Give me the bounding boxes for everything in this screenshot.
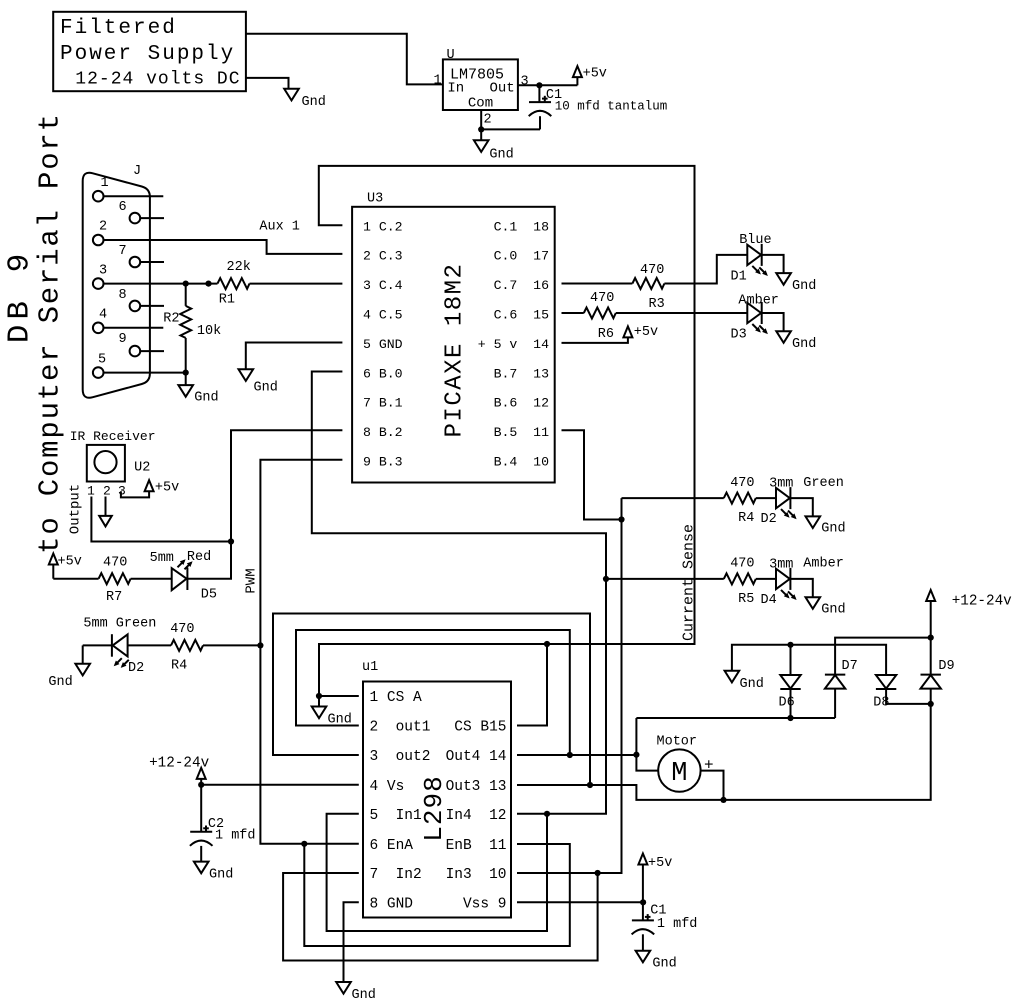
svg-text:+5v: +5v	[58, 555, 82, 570]
diode D9	[930, 638, 932, 675]
svg-text:+12-24v: +12-24v	[952, 594, 1012, 610]
svg-text:D3: D3	[731, 328, 747, 343]
ground (CS pins)	[318, 696, 320, 707]
wire: DB9 pin 2 to PICAXE C.3	[104, 240, 343, 254]
svg-text:D9: D9	[938, 659, 954, 674]
node: EnA / EnB loop junction	[301, 841, 307, 847]
svg-text:2 C.3: 2 C.3	[363, 249, 403, 264]
wire: +12-24v to D7	[835, 638, 931, 675]
wire: C.7 pin16 to R3	[562, 283, 633, 285]
ground (D6/D8)	[725, 671, 740, 683]
node: +12-24v / D9 junction	[928, 635, 934, 641]
wire: B.5 pin 11 route	[562, 430, 622, 519]
wire: +5v pin 14	[562, 337, 628, 343]
svg-text:+: +	[704, 757, 714, 775]
wire: IR pin3 to +5v	[121, 491, 149, 497]
svg-text:Green: Green	[803, 476, 844, 491]
svg-text:Gnd: Gnd	[792, 279, 816, 294]
pin 2 circle	[93, 235, 104, 246]
svg-text:470: 470	[103, 556, 127, 571]
svg-text:R5: R5	[738, 592, 754, 607]
+5v symbol (regulator)	[576, 77, 578, 85]
svg-text:U2: U2	[134, 461, 150, 476]
wire: L298 GND pin 8 to ground	[344, 902, 359, 982]
svg-text:7 In2: 7 In2	[370, 867, 422, 883]
LED D2 5mm green (points left)	[83, 644, 113, 646]
diode D8	[876, 675, 896, 689]
svg-text:Gnd: Gnd	[48, 675, 72, 690]
diode D6	[790, 645, 792, 675]
svg-text:u1: u1	[362, 660, 378, 675]
wire: power supply to regulator input	[246, 34, 443, 85]
node: motor minus / Out3 junction	[720, 797, 726, 803]
ground (PICAXE pin 5)	[239, 369, 254, 381]
svg-text:Blue: Blue	[739, 233, 771, 248]
wire: IR pin2 ground arrow	[105, 497, 107, 516]
svg-text:+12-24v: +12-24v	[149, 756, 209, 772]
svg-text:D2: D2	[761, 512, 777, 527]
wire: D1 cathode to ground	[762, 255, 784, 273]
ground (C1)	[636, 951, 651, 963]
LED D2 3mm green	[776, 487, 790, 509]
svg-text:Gnd: Gnd	[792, 337, 816, 352]
wire: DB9 pin 7 stub	[140, 261, 164, 263]
+5v symbol (IR)	[145, 480, 154, 491]
svg-text:9 B.3: 9 B.3	[363, 455, 403, 470]
capacitor C1 10 mfd tantalum	[538, 85, 540, 102]
IR receiver U2 body	[87, 445, 125, 482]
diode D7	[825, 675, 845, 689]
node: gnd rail / D6 junction	[787, 642, 793, 648]
wire: amber branch to R5	[606, 578, 724, 580]
svg-text:1 C.2: 1 C.2	[363, 219, 403, 234]
svg-text:R2: R2	[163, 312, 179, 327]
wire: R1 to PICAXE C.4	[250, 283, 343, 285]
svg-text:470: 470	[730, 476, 754, 491]
svg-text:Out: Out	[490, 81, 515, 97]
capacitor C2 1 mfd	[200, 785, 202, 832]
wire: regulator common to cap	[481, 110, 540, 140]
node: pin3 wire second junction	[205, 281, 211, 287]
svg-text:Amber: Amber	[738, 294, 779, 309]
wire: +5v to R7	[53, 578, 98, 580]
node: IR output / B.2 / D5 junction	[228, 538, 234, 544]
svg-text:Gnd: Gnd	[821, 603, 845, 618]
PICAXE right pin labels	[478, 219, 549, 469]
wire: In2 to In3 loop	[283, 873, 597, 961]
svg-text:PICAXE 18M2: PICAXE 18M2	[442, 263, 469, 438]
capacitor C1 1 mfd	[632, 914, 655, 934]
connector J outline	[83, 173, 150, 398]
svg-text:3: 3	[521, 74, 529, 89]
svg-text:J: J	[133, 164, 141, 179]
wire: R4 to D2	[756, 497, 776, 499]
svg-text:2: 2	[484, 113, 492, 128]
wire: DB9 pin 5 to ground	[104, 373, 186, 386]
svg-text:Gnd: Gnd	[821, 522, 845, 537]
svg-text:D4: D4	[761, 593, 777, 608]
node: D8/D9 bottom junction	[928, 701, 934, 707]
svg-text:5mm Green: 5mm Green	[83, 617, 156, 632]
svg-text:+ 5 v 14: + 5 v 14	[478, 337, 549, 352]
svg-text:Motor: Motor	[657, 735, 698, 750]
svg-text:Com: Com	[468, 96, 493, 112]
svg-text:B.6 12: B.6 12	[494, 396, 549, 411]
svg-text:R4: R4	[738, 511, 754, 526]
svg-text:Current Sense: Current Sense	[680, 524, 697, 641]
svg-text:4 C.5: 4 C.5	[363, 308, 403, 323]
wire: regulator output	[518, 84, 578, 86]
+5v symbol (Vss)	[642, 865, 644, 921]
resistor R4 470 (5mm green)	[171, 640, 203, 651]
wire: B.3 PWM line to EnA	[260, 460, 358, 844]
wire: D3 cathode to ground	[762, 313, 784, 331]
svg-text:6: 6	[119, 200, 127, 215]
svg-text:Amber: Amber	[803, 557, 844, 572]
ground (3mm amber D4)	[806, 597, 821, 609]
svg-text:8 GND: 8 GND	[370, 896, 414, 912]
resistor R3 470	[632, 278, 664, 289]
+5v symbol (R7)	[52, 565, 54, 579]
ground (C2)	[194, 862, 209, 874]
svg-text:470: 470	[590, 291, 614, 306]
node: pin3/R2 junction	[183, 281, 189, 287]
svg-text:Gnd: Gnd	[489, 148, 513, 163]
svg-text:R6: R6	[598, 327, 614, 342]
svg-text:In4 12: In4 12	[446, 808, 507, 824]
svg-text:C.6 15: C.6 15	[494, 308, 549, 323]
wire: DB9 pin 1 stub	[104, 195, 164, 197]
svg-text:C.7 16: C.7 16	[494, 278, 549, 293]
wire: CS B riser	[517, 644, 547, 726]
resistor R2 10k	[185, 284, 187, 306]
+12-24v symbol (Vs)	[200, 779, 202, 785]
svg-text:2: 2	[103, 484, 111, 499]
svg-text:+5v: +5v	[583, 67, 607, 82]
IC u1 L298 body	[363, 682, 511, 918]
wire: DB9 pin 6 stub	[140, 217, 164, 219]
wire: Vss to +5v	[517, 901, 643, 903]
svg-text:U3: U3	[367, 192, 383, 207]
node: CS A / ground junction	[316, 693, 322, 699]
node: regulator common junction	[478, 126, 484, 132]
wire: DB9 pin 4 stub	[104, 327, 164, 329]
svg-text:R7: R7	[106, 590, 122, 605]
wire: DB9 pin 8 stub	[140, 305, 164, 307]
svg-text:Gnd: Gnd	[254, 381, 278, 396]
wire: motor left lead	[636, 718, 658, 771]
svg-text:Power Supply: Power Supply	[60, 43, 235, 66]
wire: R7 to D5	[131, 578, 172, 580]
ground (L298 pin 8)	[336, 982, 351, 994]
svg-text:4: 4	[99, 308, 107, 323]
svg-text:R4: R4	[171, 659, 187, 674]
ground (D1)	[776, 273, 791, 285]
svg-text:4 Vs: 4 Vs	[370, 779, 405, 795]
pin 9 circle	[130, 346, 141, 357]
node: CS loop / CS B junction	[544, 641, 550, 647]
svg-text:Out3 13: Out3 13	[446, 779, 507, 795]
ground (D3)	[776, 331, 791, 343]
svg-text:L298: L298	[419, 775, 449, 841]
wire: B.2 to IR output node	[231, 430, 342, 541]
PICAXE left pin labels	[363, 219, 403, 469]
node: out2 loop / Out3 junction	[587, 782, 593, 788]
resistor R1 22k	[218, 278, 250, 289]
resistor R5 470 (3mm amber)	[724, 573, 756, 584]
node: D6 bottom junction	[787, 715, 793, 721]
wire: flyback top rail	[636, 717, 835, 719]
svg-text:3: 3	[99, 264, 107, 279]
svg-text:2: 2	[99, 220, 107, 235]
pin 3 circle	[93, 278, 104, 289]
svg-text:D2: D2	[128, 661, 144, 676]
ground (DB9 pin5/R2)	[178, 385, 193, 397]
svg-text:3: 3	[118, 484, 126, 499]
svg-text:2 out1: 2 out1	[370, 720, 431, 736]
svg-text:9: 9	[119, 332, 127, 347]
svg-text:Gnd: Gnd	[209, 868, 233, 883]
node: motor plus node	[633, 752, 639, 758]
wire: power supply ground lead	[246, 78, 289, 89]
svg-text:1 CS A: 1 CS A	[370, 690, 423, 706]
svg-text:3 out2: 3 out2	[370, 749, 431, 765]
svg-text:1: 1	[101, 176, 109, 191]
svg-text:470: 470	[170, 622, 194, 637]
regulator U LM7805	[443, 59, 518, 110]
wire: DB9 pin 3 to R1	[104, 283, 218, 285]
svg-text:In3 10: In3 10	[446, 867, 507, 883]
svg-text:Gnd: Gnd	[740, 677, 764, 692]
svg-text:Aux 1: Aux 1	[259, 220, 300, 235]
svg-text:CS B15: CS B15	[454, 720, 506, 736]
svg-text:3 C.4: 3 C.4	[363, 278, 403, 293]
svg-text:In: In	[447, 81, 464, 97]
svg-text:6 B.0: 6 B.0	[363, 366, 403, 381]
L298 left pin labels	[370, 690, 431, 912]
L298 right pin labels	[446, 720, 507, 913]
svg-text:3mm: 3mm	[769, 558, 793, 573]
wire: C.6 pin15 to R6	[562, 312, 584, 314]
wire: current sense loop (C.2 / CS)	[319, 166, 695, 696]
svg-text:1 mfd: 1 mfd	[657, 917, 698, 932]
node: B.0 / amber LED junction	[603, 576, 609, 582]
LED D5 5mm red	[172, 568, 187, 590]
motor M	[658, 749, 700, 791]
wire: R6 to LED D3	[616, 312, 748, 314]
svg-text:to Computer Serial Port: to Computer Serial Port	[34, 112, 67, 554]
svg-text:1 mfd: 1 mfd	[215, 829, 256, 844]
wire: riser to In3 (green LED branch)	[517, 498, 622, 873]
svg-text:D8: D8	[873, 696, 889, 711]
power supply box	[53, 12, 246, 91]
pin 1 circle	[93, 191, 104, 202]
wire: out1 to Out4 loop	[296, 630, 570, 755]
node: B.5 / green-LED riser junction	[618, 516, 624, 522]
node: Vss +5v junction	[640, 899, 646, 905]
svg-text:Gnd: Gnd	[352, 988, 376, 1003]
wire: Out4 row to motor	[517, 754, 636, 756]
svg-text:Gnd: Gnd	[194, 391, 218, 406]
svg-text:+5v: +5v	[634, 325, 658, 340]
resistor R7 470	[99, 573, 131, 584]
svg-text:Gnd: Gnd	[302, 95, 326, 110]
svg-text:10k: 10k	[197, 324, 221, 339]
svg-text:6 EnA: 6 EnA	[370, 838, 414, 854]
node: Vs / C2 junction	[198, 782, 204, 788]
pin 8 circle	[130, 301, 141, 312]
svg-text:Gnd: Gnd	[328, 713, 352, 728]
svg-text:Red: Red	[187, 550, 211, 565]
wire: out2 to Out3 loop	[273, 614, 590, 786]
wire: In1 to In4 loop	[327, 814, 547, 931]
svg-text:IR Receiver: IR Receiver	[70, 429, 156, 444]
svg-text:DB 9: DB 9	[3, 249, 38, 343]
svg-text:B.5 11: B.5 11	[494, 425, 549, 440]
ground (regulator)	[474, 140, 489, 152]
svg-text:+5v: +5v	[648, 856, 672, 871]
wire: D5 cathode to B.2 node	[187, 542, 231, 579]
wire: D2 cathode to ground	[790, 498, 812, 516]
+5v symbol (pin 14)	[623, 326, 632, 337]
svg-text:5 GND: 5 GND	[363, 337, 403, 352]
svg-text:PWM: PWM	[243, 568, 259, 593]
svg-text:U: U	[447, 48, 455, 63]
svg-text:12-24 volts DC: 12-24 volts DC	[75, 70, 240, 90]
wire: DB9 pin 9 stub	[140, 350, 164, 352]
wire: Out3 row to motor bottom	[517, 689, 931, 800]
wire: Vs to +12-24v	[201, 784, 359, 786]
resistor R6 470	[584, 308, 616, 319]
node: out1 loop / Out4 junction	[567, 752, 573, 758]
svg-text:Filtered: Filtered	[60, 17, 177, 40]
svg-text:Out4 14: Out4 14	[446, 749, 507, 765]
svg-text:C.1 18: C.1 18	[494, 219, 549, 234]
wire: riser to R4 (3mm green)	[622, 497, 724, 499]
wire: R4 to PWM line	[203, 644, 260, 646]
svg-text:3mm: 3mm	[769, 477, 793, 492]
ground (5mm green)	[82, 645, 84, 663]
svg-text:470: 470	[730, 557, 754, 572]
svg-text:5mm: 5mm	[150, 551, 174, 566]
+12-24v symbol (motor supply)	[930, 601, 932, 638]
svg-text:10 mfd tantalum: 10 mfd tantalum	[555, 100, 668, 114]
pin 7 circle	[130, 257, 141, 268]
wire: B.0 route to In4	[312, 372, 606, 814]
pin 6 circle	[130, 213, 141, 224]
ground (power supply)	[284, 89, 299, 101]
node: pin5/R2 ground junction	[183, 370, 189, 376]
svg-text:D7: D7	[842, 659, 858, 674]
node: In3 / In2 loop junction	[595, 870, 601, 876]
node: PWM / green LED junction	[257, 642, 263, 648]
svg-text:R1: R1	[219, 293, 235, 308]
svg-text:D1: D1	[731, 270, 747, 285]
LED D3 amber	[747, 302, 761, 324]
svg-text:7: 7	[119, 244, 127, 259]
wire: EnA to EnB loop	[304, 844, 570, 946]
wire: D4 cathode to ground	[790, 579, 812, 597]
emission arrows (5mm green, down-left)	[114, 658, 129, 668]
node: +5v at regulator output	[536, 82, 542, 88]
svg-text:5 In1: 5 In1	[370, 808, 422, 824]
svg-text:7 B.1: 7 B.1	[363, 396, 403, 411]
wire: R3 to LED D1	[664, 255, 747, 284]
svg-text:Gnd: Gnd	[652, 957, 676, 972]
pin 4 circle	[93, 323, 104, 334]
svg-text:B.7 13: B.7 13	[494, 366, 549, 381]
svg-text:R3: R3	[649, 297, 665, 312]
node: In4 / In1 loop junction	[544, 811, 550, 817]
svg-text:M: M	[671, 759, 687, 789]
svg-text:470: 470	[640, 263, 664, 278]
wire: D2 to R4	[128, 644, 171, 646]
svg-text:5: 5	[98, 353, 106, 368]
wire: diode ground rail	[732, 645, 886, 675]
svg-text:D5: D5	[201, 588, 217, 603]
wire: PICAXE GND pin 5 to ground	[246, 343, 343, 370]
svg-text:1: 1	[87, 484, 95, 499]
wire: motor right lead	[701, 771, 724, 800]
svg-text:Output: Output	[68, 484, 84, 534]
svg-text:B.4 10: B.4 10	[494, 455, 549, 470]
svg-text:+5v: +5v	[155, 481, 179, 496]
svg-text:22k: 22k	[227, 260, 251, 275]
svg-text:8 B.2: 8 B.2	[363, 425, 403, 440]
svg-text:Vss 9: Vss 9	[463, 896, 507, 912]
svg-text:1: 1	[434, 74, 442, 89]
resistor R4 470 (3mm green)	[724, 493, 756, 504]
emission arrows (D5, up-right)	[178, 559, 193, 569]
ground (3mm green D2)	[806, 516, 821, 528]
svg-text:D6: D6	[779, 696, 795, 711]
IC U3 PICAXE 18M2 body	[352, 207, 555, 483]
pin 5 circle	[93, 367, 104, 378]
wire: IR pin1 output	[91, 497, 231, 542]
wire: R5 to D4	[756, 578, 776, 580]
svg-text:8: 8	[119, 288, 127, 303]
svg-text:C.0 17: C.0 17	[494, 249, 549, 264]
LED D1 blue	[747, 244, 761, 266]
svg-text:EnB 11: EnB 11	[446, 838, 507, 854]
LED D4 3mm amber	[776, 568, 790, 590]
